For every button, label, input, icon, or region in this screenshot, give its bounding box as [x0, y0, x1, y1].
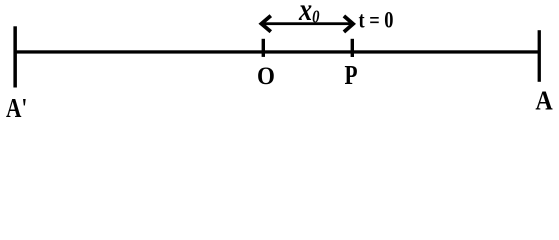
right arrowhead — [344, 16, 353, 32]
svg-text:x: x — [298, 0, 312, 28]
double-headed arrow x0 between O and P: shaft — [263, 22, 351, 25]
svg-text:O: O — [257, 63, 275, 90]
label A' at left end — [6, 94, 27, 124]
svg-text:P: P — [345, 60, 358, 90]
svg-text:0: 0 — [312, 6, 319, 27]
label A at right end — [535, 85, 553, 116]
label P below tick — [345, 60, 358, 90]
main horizontal axis line A' to A — [14, 50, 540, 53]
right end bar at A — [538, 30, 541, 82]
left arrowhead — [261, 16, 270, 32]
left end bar at A' — [13, 26, 17, 87]
svg-text:A': A' — [6, 94, 27, 122]
label x0 above arrow — [298, 0, 319, 28]
tick mark at P — [351, 39, 354, 57]
svg-text:t = 0: t = 0 — [359, 7, 394, 34]
label t = 0 right of arrow — [359, 7, 394, 34]
svg-text:A: A — [535, 85, 553, 116]
label O below tick — [257, 63, 275, 90]
tick mark at O — [262, 39, 265, 57]
